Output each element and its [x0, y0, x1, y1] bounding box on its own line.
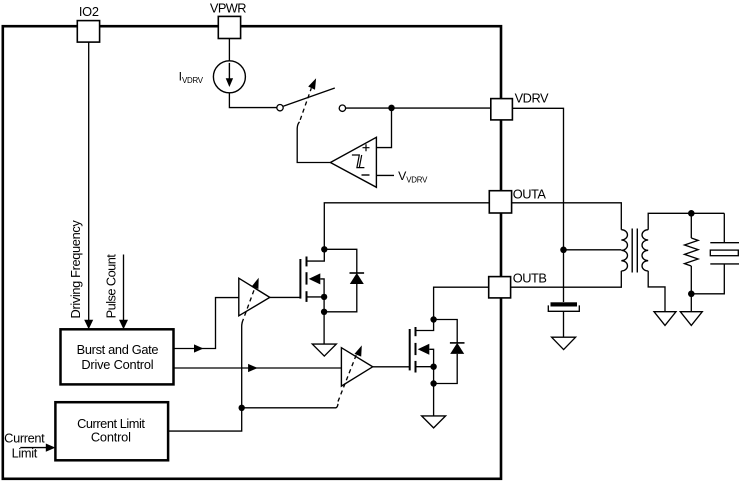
svg-text:OUTB: OUTB [513, 271, 547, 286]
svg-text:Control: Control [91, 429, 131, 444]
wire burst output 1 to driver A1 input [174, 298, 239, 353]
ground Q2 [422, 416, 446, 428]
transistor Q1 [300, 249, 324, 311]
piezo transducer [691, 213, 739, 293]
node secondary bottom junction [688, 291, 695, 298]
wire switch to VDRV pin [346, 107, 491, 109]
svg-text:Limit: Limit [12, 446, 38, 461]
ground C1 [552, 337, 576, 349]
switch [277, 78, 346, 111]
resistor R1 [685, 213, 699, 293]
node Q1 drain [321, 246, 327, 252]
node Q1 source-body [321, 294, 327, 300]
wire OUTA to Q1 drain [324, 203, 489, 250]
node Q2 drain [430, 316, 436, 322]
wire resistor to ground [690, 294, 692, 312]
svg-text:IO2: IO2 [79, 4, 99, 19]
pin VDRV [491, 91, 549, 120]
svg-text:OUTA: OUTA [513, 186, 547, 201]
comparator [330, 137, 376, 187]
pin VPWR [210, 0, 246, 38]
box Current Limit Control [55, 402, 168, 460]
svg-text:Current: Current [4, 431, 45, 446]
wire OUTB to Q2 drain [434, 287, 489, 319]
wire transformer center tap [564, 249, 622, 251]
wire driver A1 output to Q1 gate [270, 296, 301, 298]
capacitor C1 [548, 302, 579, 337]
node VDRV center-tap junction [560, 247, 567, 254]
signal Current Limit input [4, 431, 55, 461]
current source IVDRV [213, 61, 245, 93]
wire comparator plus input [376, 108, 391, 148]
node switch-VDRV junction [388, 105, 395, 112]
wire secondary top [648, 213, 724, 229]
wire OUTB to transformer primary bottom [511, 271, 622, 287]
box Burst and Gate Drive Control [61, 329, 174, 384]
node Q2 source-diode [430, 380, 436, 386]
wire secondary bottom to ground [648, 271, 665, 312]
svg-text:Drive Control: Drive Control [81, 357, 153, 372]
wire driver A2 output to Q2 gate [373, 366, 410, 368]
node secondary top junction [688, 210, 695, 217]
signal Pulse Count [104, 254, 128, 330]
pin IO2 [77, 4, 99, 42]
wire OUTA to transformer primary top [512, 203, 622, 230]
node control junction [239, 405, 245, 411]
body diode D1 [324, 249, 364, 311]
signal Driving Frequency [68, 220, 93, 330]
ground secondary [654, 312, 676, 326]
svg-text:Pulse Count: Pulse Count [104, 254, 119, 319]
transistor Q2 [410, 320, 434, 384]
svg-text:Burst and Gate: Burst and Gate [77, 342, 159, 357]
svg-text:Driving Frequency: Driving Frequency [68, 220, 83, 319]
transformer T1 [621, 229, 648, 273]
chip boundary [3, 26, 501, 479]
node Q2 source-body [430, 364, 436, 370]
ground Q1 [312, 344, 336, 356]
svg-text:VPWR: VPWR [210, 0, 246, 15]
wire comparator output to switch control [297, 88, 330, 162]
ground resistor [680, 312, 702, 326]
svg-text:VDRV: VDRV [515, 91, 549, 106]
wire IO2 to Burst box [88, 42, 90, 322]
wire Q1 source to ground [323, 312, 325, 344]
body diode D2 [434, 320, 465, 384]
wire current source to switch [229, 93, 276, 108]
node Q1 source-diode [321, 309, 327, 315]
wire Q2 source to ground [433, 384, 435, 416]
driver A2 [338, 345, 373, 401]
wire current limit control bus [168, 322, 338, 431]
wire burst output 2 to driver A2 input [174, 364, 342, 372]
driver A1 [239, 278, 270, 323]
pin OUTB [489, 271, 547, 298]
pin OUTA [489, 186, 546, 213]
wire VDRV rail to capacitor [512, 108, 563, 302]
wire comparator minus input stub [376, 174, 394, 176]
wire VPWR to current source [228, 39, 230, 62]
